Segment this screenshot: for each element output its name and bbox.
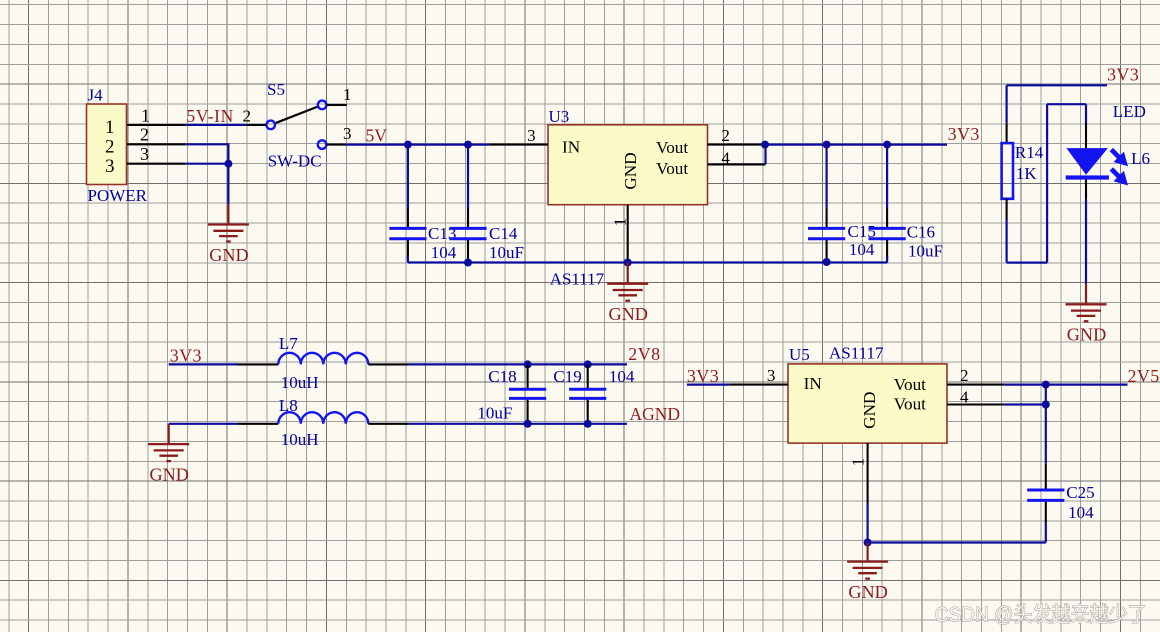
svg-text:104: 104 <box>849 240 875 259</box>
junction node C16 top <box>883 141 891 149</box>
svg-text:3: 3 <box>105 156 115 177</box>
LED arrow 2 <box>1111 169 1128 186</box>
wire C13 bottom corner <box>407 256 409 263</box>
ground GND (U5) <box>847 543 888 602</box>
pin 2 of J4 <box>127 125 185 145</box>
junction node C18 bottom <box>524 420 532 428</box>
ground GND (power input) <box>208 204 249 265</box>
junction node C14 top <box>464 141 472 149</box>
svg-text:L8: L8 <box>279 396 298 415</box>
svg-text:2V8: 2V8 <box>628 344 660 364</box>
svg-text:U5: U5 <box>789 345 810 364</box>
svg-text:GND: GND <box>608 304 647 324</box>
wire 5V-IN net <box>185 124 247 126</box>
svg-text:C25: C25 <box>1066 483 1094 502</box>
svg-text:10uF: 10uF <box>489 243 524 262</box>
wire 5V net <box>346 144 490 146</box>
svg-text:3: 3 <box>140 144 149 164</box>
svg-text:1: 1 <box>849 458 868 467</box>
wire LED cathode down <box>1085 200 1087 284</box>
LED L6 <box>1066 123 1109 200</box>
junction node U3 ground <box>624 259 632 267</box>
junction node pin4 tie <box>1042 401 1050 409</box>
svg-text:Vout: Vout <box>656 138 688 157</box>
svg-text:SW-DC: SW-DC <box>268 151 322 170</box>
junction node U5 ground <box>864 539 872 547</box>
svg-text:1: 1 <box>610 218 629 227</box>
svg-text:3: 3 <box>343 124 352 143</box>
junction node C19 bottom <box>584 420 592 428</box>
wire 3V3 feed to R14 <box>1007 85 1107 123</box>
regulator U5 AS1117 <box>788 364 947 443</box>
resistor R14 <box>1002 123 1013 219</box>
switch S5 <box>247 101 347 149</box>
wire AGND net <box>409 423 627 425</box>
svg-text:3V3: 3V3 <box>1107 65 1139 85</box>
junction node C14 bottom <box>464 259 472 267</box>
svg-text:IN: IN <box>562 137 581 156</box>
pin 1 of U3 (GND) <box>610 205 629 259</box>
capacitor C14 <box>449 145 486 259</box>
wire 3V3 to L7 <box>169 363 238 365</box>
svg-text:1K: 1K <box>1016 164 1038 183</box>
capacitor C25 <box>1027 385 1064 543</box>
svg-text:CSDN @头发越来越少了: CSDN @头发越来越少了 <box>935 604 1147 627</box>
svg-text:5V: 5V <box>366 126 388 146</box>
pin 2 of U3 <box>708 126 763 145</box>
svg-text:2: 2 <box>960 366 969 385</box>
pin 3 of J4 <box>127 144 185 164</box>
junction node C19 top <box>584 360 592 368</box>
svg-text:LED: LED <box>1113 102 1146 121</box>
svg-text:1: 1 <box>343 85 352 104</box>
svg-text:C14: C14 <box>489 224 518 243</box>
inductor L8 <box>238 412 409 424</box>
pin 4 of U5 <box>947 388 1005 407</box>
wire 3V3 rail <box>765 144 947 146</box>
svg-text:GND: GND <box>621 152 640 189</box>
svg-text:2: 2 <box>721 126 730 145</box>
regulator U3 AS1117 <box>548 125 708 205</box>
pin 3 of U3 <box>490 126 548 145</box>
wire AGND feed <box>169 423 238 425</box>
svg-text:J4: J4 <box>88 86 104 105</box>
svg-text:GND: GND <box>860 392 879 429</box>
wire J4 pin3 to junction <box>185 163 228 165</box>
svg-text:POWER: POWER <box>88 186 148 205</box>
svg-text:C16: C16 <box>907 223 935 242</box>
wire R14 bottom loop to LED top <box>1007 104 1086 262</box>
svg-text:4: 4 <box>721 149 730 168</box>
wire ground rail (top row) <box>408 261 887 263</box>
wire J4 pin2 to corner <box>185 143 228 145</box>
svg-text:GND: GND <box>848 582 887 602</box>
svg-text:AGND: AGND <box>630 404 681 424</box>
svg-text:4: 4 <box>960 388 969 407</box>
svg-text:104: 104 <box>431 243 457 262</box>
junction node C15 top <box>823 141 831 149</box>
svg-text:10uF: 10uF <box>477 404 512 423</box>
svg-text:R14: R14 <box>1015 143 1044 162</box>
pin 3 of U5 <box>730 366 788 385</box>
capacitor C15 <box>808 145 845 259</box>
junction node C15 bottom <box>823 258 831 266</box>
wire U5 ground return <box>868 541 1046 543</box>
capacitor C19 <box>569 364 606 423</box>
pin 1 of J4 <box>127 105 185 125</box>
svg-text:C19: C19 <box>553 367 581 386</box>
pin 1 of U5 (GND) <box>849 443 868 503</box>
wire 3V3 to U5 <box>687 384 730 386</box>
ground GND (analog filter) <box>148 424 189 485</box>
inductor L7 <box>238 353 409 365</box>
wire U5 pin1 down <box>866 504 868 543</box>
wire 2V5 net <box>1005 384 1128 386</box>
svg-text:1: 1 <box>141 105 150 125</box>
junction node C13 top <box>404 141 412 149</box>
svg-text:10uH: 10uH <box>281 373 319 392</box>
ground GND (LED) <box>1066 284 1107 345</box>
capacitor C13 <box>389 145 426 259</box>
svg-text:104: 104 <box>609 367 635 386</box>
junction node at J4 ground <box>224 160 232 168</box>
svg-text:IN: IN <box>804 374 823 393</box>
svg-text:3V3: 3V3 <box>948 124 980 144</box>
capacitor C18 <box>509 364 546 423</box>
svg-text:AS1117: AS1117 <box>829 344 884 363</box>
pin 4 of U3 <box>708 149 766 168</box>
wire U5 pin4 to junction <box>1005 403 1046 405</box>
capacitor C16 <box>869 145 906 259</box>
svg-text:S5: S5 <box>267 80 285 99</box>
svg-text:2: 2 <box>140 125 149 145</box>
svg-text:5V-IN: 5V-IN <box>186 106 234 126</box>
LED arrow 1 <box>1111 150 1128 167</box>
junction node U3 output <box>761 141 769 149</box>
svg-text:L7: L7 <box>279 334 298 353</box>
wire corner down to GND <box>227 143 229 204</box>
connector J4 <box>87 104 127 185</box>
wire 2V8 net <box>409 363 627 365</box>
svg-text:AS1117: AS1117 <box>550 270 605 289</box>
svg-text:U3: U3 <box>549 107 570 126</box>
svg-text:Vout: Vout <box>894 395 926 414</box>
svg-text:10uF: 10uF <box>908 242 943 261</box>
svg-text:104: 104 <box>1068 503 1094 522</box>
svg-text:10uH: 10uH <box>281 430 319 449</box>
svg-text:2: 2 <box>105 136 115 157</box>
pin 2 of U5 <box>947 366 1005 385</box>
wire C16 bottom corner <box>886 256 888 263</box>
svg-text:GND: GND <box>209 245 248 265</box>
junction node C18 top <box>524 360 532 368</box>
svg-text:2: 2 <box>243 107 252 126</box>
svg-text:C18: C18 <box>488 367 516 386</box>
svg-text:1: 1 <box>105 117 115 138</box>
svg-text:3V3: 3V3 <box>170 345 202 365</box>
junction node 2V5 rail <box>1042 381 1050 389</box>
svg-text:Vout: Vout <box>894 375 926 394</box>
svg-text:3: 3 <box>767 366 776 385</box>
svg-text:3V3: 3V3 <box>687 366 719 386</box>
svg-text:Vout: Vout <box>656 159 688 178</box>
svg-text:L6: L6 <box>1131 149 1150 168</box>
svg-text:GND: GND <box>149 464 188 484</box>
svg-text:GND: GND <box>1067 325 1106 345</box>
ground GND (U3) <box>607 263 648 325</box>
svg-text:3: 3 <box>527 126 536 145</box>
wire U3 pin4 up to output net <box>764 145 766 165</box>
svg-text:2V5: 2V5 <box>1128 366 1160 386</box>
